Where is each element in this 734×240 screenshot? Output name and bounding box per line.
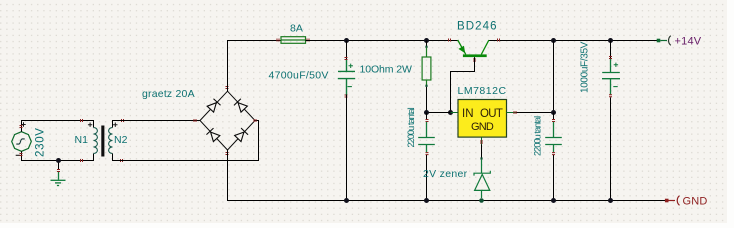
svg-text:BD246: BD246 [457,20,498,32]
svg-text:N2: N2 [114,134,128,146]
wire collector of Q1 to +14V terminal [489,40,659,42]
capacitor C2 [418,122,435,152]
terminal stub [660,40,667,42]
svg-text:230V: 230V [35,127,47,157]
pin marks C1 [345,58,348,98]
terminal pad dot [665,199,669,203]
svg-text:OUT: OUT [480,108,503,120]
GND pin wire [481,137,483,144]
emitter arrow [459,46,465,52]
polarity plus N1 [88,123,92,127]
plus mark of source [21,122,25,126]
wire: source top to transformer N1 top [22,121,94,132]
svg-text:N1: N1 [75,134,89,146]
diode D4 (bottom-right) [234,128,248,142]
pin marks bridge top/bottom [226,87,229,155]
pin marks OUT [514,111,516,114]
svg-text:GND: GND [683,196,708,208]
svg-text:4700uF/50V: 4700uF/50V [269,70,329,82]
terminal arc [669,36,671,46]
node top rail / C1 [344,38,349,43]
wire OUT pin to output node [507,112,517,114]
R1 pin dot top [425,46,427,48]
svg-text:2200u tantal: 2200u tantal [533,116,543,156]
wire N2 top to bridge left [113,121,201,128]
capacitor C3 2200u tantal [545,122,562,152]
ground wire stub [58,161,60,170]
wire fuse to emitter of Q1 [306,40,458,42]
svg-text:2V zener: 2V zener [423,168,468,180]
C1 minus mark [348,86,352,88]
pin marks Q1 base [473,59,476,61]
node rail / C4 [608,38,613,43]
C4 plus mark [614,63,618,67]
wire bridge top to fuse [228,41,282,92]
node zener / ground rail [479,198,484,203]
capacitor C4 [602,59,620,94]
node C2 / ground rail [424,198,429,203]
svg-text:1000uF/35V: 1000uF/35V [580,41,591,93]
wire base to IN node [451,57,475,112]
pin marks AC source [20,126,23,156]
svg-text:2200u tantal: 2200u tantal [406,107,416,147]
diode D3 (bottom-left) [206,128,220,142]
node C3 / ground rail [551,198,556,203]
svg-text:+14V: +14V [675,35,702,47]
pin marks C4 [609,57,612,59]
ground [51,172,66,186]
wire R1 to IN node [426,87,428,113]
wire OUT node to C3 [553,113,555,120]
wire C3 to ground rail [553,155,555,201]
winding N2 [109,128,113,154]
svg-text:graetz 20A: graetz 20A [142,88,195,100]
terminal stub [669,200,676,202]
svg-text:GND: GND [471,121,494,133]
wire rail to C4 [610,41,612,59]
diode D2 (right-top) [234,99,248,113]
transformer core [101,126,104,157]
node collector rail / output [551,38,556,43]
pin marks C2 bottom [426,153,429,155]
svg-text:8A: 8A [290,23,303,35]
wire C4 to ground rail [610,97,612,200]
collector line [481,40,489,54]
svg-text:IN: IN [462,108,474,120]
winding N1 [94,128,98,154]
pin marks C3 [552,120,555,122]
bridge diamond wires [200,91,255,150]
pin marks ground [57,170,60,172]
pin marks N1 [81,119,83,162]
wire C2 to ground rail [426,155,428,201]
wire IN node to regulator [427,112,451,114]
node top rail / R1 [424,38,429,43]
R1 pin dot bottom [425,85,427,87]
capacitor C1 [338,60,355,95]
AC source octagon [12,132,32,152]
terminal arc [677,196,679,206]
zener diode [474,160,490,198]
emitter line [458,40,466,54]
pin marks C4 bottom [609,95,612,97]
pin marks GND pin [480,141,483,143]
regulator body U1 [458,100,507,138]
node: junction AC bottom / ground [56,158,61,163]
resistor R1 [422,48,431,85]
C1 plus mark [349,64,353,68]
svg-text:10Ohm 2W: 10Ohm 2W [360,64,412,76]
C4 minus mark [613,86,617,88]
pin marks N2 [121,119,124,162]
wire bridge bottom to GND terminal [228,150,667,201]
node OUT wire / C3 [551,110,556,115]
wire N2 bottom to bridge right [113,121,259,161]
node C1 / ground rail [344,198,349,203]
wire C1 to ground rail [346,95,348,201]
polarity plus N2 [113,123,117,127]
wire rail down to OUT node [553,41,555,113]
pin marks C3 bottom [552,153,555,155]
terminal pad dot [657,39,661,43]
wire rail to R1 [426,41,428,48]
diode D1 (left-top) [207,99,221,113]
fuse F1 8A [281,37,306,44]
pin marks Q1 emitter/collector [449,39,500,42]
svg-text:LM7812C: LM7812C [458,85,507,97]
node R1 / C2 / IN [424,110,429,115]
wire: source bottom to transformer N1 bottom [22,151,94,160]
pin marks fuse [277,39,309,42]
wire IN node to C2 [426,113,428,120]
wire rail to C1 [346,41,348,60]
base bar [463,54,487,57]
node base/IN wire [448,110,453,115]
pin marks bridge left/right [194,119,256,122]
pin marks C2 [426,120,429,122]
node C4 / ground rail [608,198,613,203]
zener pin dot top [480,157,482,159]
minus mark of source [16,154,20,156]
